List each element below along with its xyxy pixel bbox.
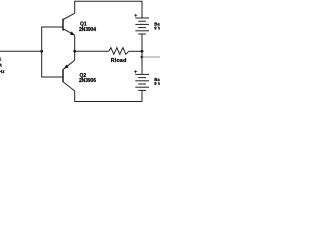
svg-text:1: 1 [0, 56, 2, 61]
wire Q1 base lead [41, 26, 63, 28]
wire output to Q2 emitter [74, 51, 76, 60]
transistor Q2 2N3906 PNP [63, 60, 75, 91]
svg-text:2N3904: 2N3904 [79, 27, 96, 33]
wire Q1 collector to top rail [75, 1, 142, 18]
wire input from source [0, 50, 42, 52]
wire output to resistor [75, 50, 109, 52]
resistor Rload [109, 48, 129, 55]
svg-text:k: k [0, 63, 2, 68]
wire battery stack vertical [141, 34, 143, 74]
svg-text:9 V: 9 V [154, 25, 160, 30]
wire Q1 emitter down [74, 35, 76, 51]
wire Q2 base lead [41, 76, 63, 78]
wire vertical base bus [41, 27, 43, 77]
wire gray to right edge [142, 56, 160, 58]
wire Q2 collector to bottom rail [75, 90, 142, 101]
battery B2 9V [134, 70, 149, 90]
transistor Q1 2N3904 NPN [63, 13, 75, 35]
node input junction [40, 50, 43, 53]
battery B1 9V [134, 14, 149, 34]
svg-text:2N3906: 2N3906 [79, 78, 96, 84]
svg-text:Rload: Rload [111, 58, 127, 64]
wire resistor to battery node [129, 50, 142, 52]
node mid supply junction [141, 56, 144, 59]
svg-text:9 V: 9 V [154, 81, 160, 86]
svg-text:Hz: Hz [0, 69, 5, 74]
node rload junction [141, 50, 144, 53]
node output junction [73, 50, 76, 53]
